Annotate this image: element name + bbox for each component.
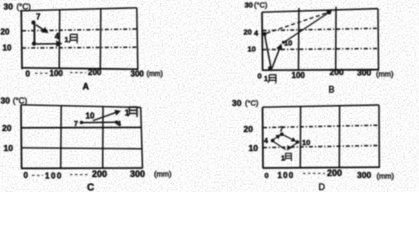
D x-axis <box>263 166 381 169</box>
B x-axis <box>262 69 379 72</box>
A 200mm gridline <box>99 9 102 69</box>
scan artifact dashes B axis <box>348 69 356 71</box>
D loop: Jul->Oct segment with arrow <box>283 135 295 141</box>
A 20C gridline <box>22 29 137 31</box>
D loop: July point <box>280 132 284 136</box>
A y-axis <box>20 11 23 69</box>
B loop: April point <box>263 32 267 36</box>
A loop: July point <box>31 20 35 24</box>
B loop: July point with arrowhead <box>327 10 332 15</box>
A loop: vertical segment July->Jan <box>33 24 35 43</box>
D loop: October point <box>296 140 300 144</box>
C 20C gridline <box>22 126 142 128</box>
D 30C top gridline <box>263 105 380 107</box>
B 30C top gridline <box>262 9 378 13</box>
D loop: Apr->Jul segment with arrow <box>273 135 280 140</box>
C y-axis <box>20 105 23 169</box>
A 10C gridline <box>22 46 137 49</box>
D 300mm right edge <box>378 105 380 167</box>
D 100mm gridline <box>299 106 301 167</box>
D y-axis <box>262 107 265 168</box>
D 10C gridline <box>263 146 379 148</box>
C loop: horizontal segment 7->4 <box>82 121 116 123</box>
C loop: diagonal arrow to 1月 <box>93 111 120 120</box>
B loop: dashed Apr->Jul arrow <box>267 13 327 33</box>
scan artifact dashes A axis <box>35 72 48 74</box>
B loop: January point <box>268 66 272 70</box>
A 30C top gridline <box>20 8 137 11</box>
A x-axis <box>22 68 139 69</box>
D 200mm gridline <box>338 106 340 168</box>
B 20C gridline <box>263 28 378 30</box>
scan artifact dashes D axis <box>303 172 325 174</box>
C 100mm gridline <box>60 106 63 168</box>
B loop: Oct->Jan segment with up arrowhead <box>272 45 281 69</box>
B y-axis <box>261 12 264 70</box>
B loop: Jul->Oct segment <box>285 13 329 42</box>
D loop: January point with down arrowhead <box>288 147 290 150</box>
scan grain overlay <box>0 0 419 192</box>
C loop: Jul point <box>80 121 83 124</box>
A loop: horizontal arrow to right <box>36 43 61 45</box>
C x-axis <box>21 167 143 169</box>
C 30C top gridline <box>21 105 141 108</box>
A loop: bottom point <box>32 42 36 46</box>
A loop: diagonal arrow down-right <box>36 25 47 32</box>
C 300mm right edge <box>141 107 143 168</box>
B 100mm gridline <box>298 8 300 70</box>
D loop: Oct->Jan segment <box>289 143 298 149</box>
B 10C gridline <box>263 49 378 50</box>
B 200mm gridline <box>335 7 337 70</box>
C 200mm gridline <box>102 107 104 169</box>
D loop: Jan->Apr segment <box>274 142 286 150</box>
D loop: April point <box>271 139 275 143</box>
A 300mm right edge <box>137 8 138 69</box>
scan artifact dashes C axis <box>32 174 43 176</box>
C 10C gridline <box>22 148 142 149</box>
D 20C gridline <box>263 125 379 127</box>
C loop: right end point <box>115 121 118 124</box>
B 300mm right edge <box>377 9 380 70</box>
B loop: Jan->Apr segment <box>265 36 271 69</box>
A 100mm gridline <box>58 10 61 69</box>
